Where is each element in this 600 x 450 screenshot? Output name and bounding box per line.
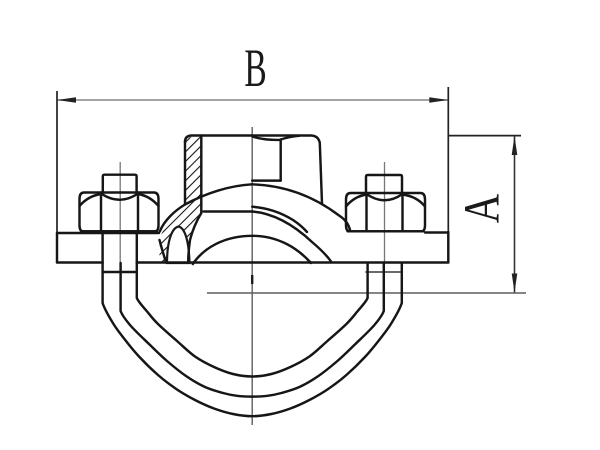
svg-text:B: B [244,38,266,98]
svg-text:A: A [453,194,509,223]
